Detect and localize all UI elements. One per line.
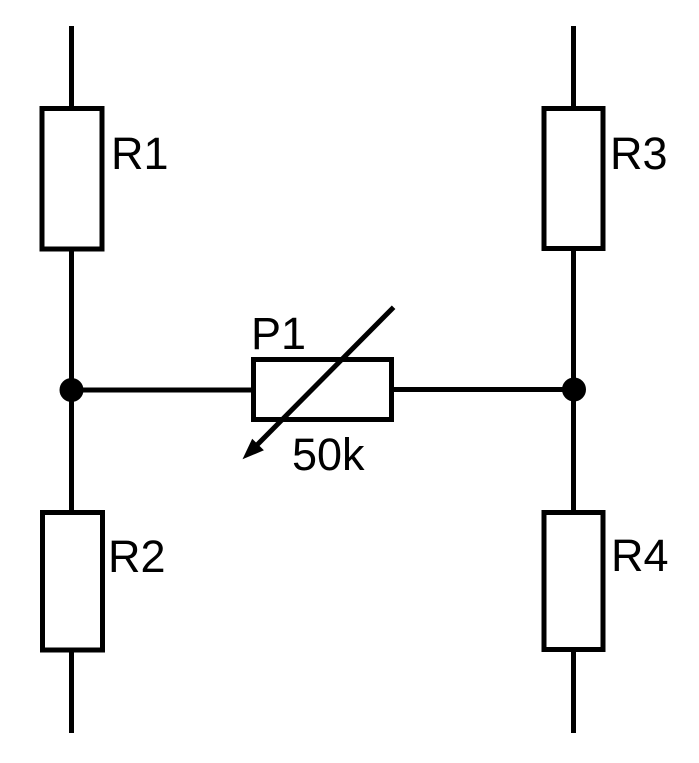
resistor R4 (544, 513, 603, 650)
svg-text:R3: R3 (610, 128, 668, 179)
svg-text:R1: R1 (111, 128, 169, 179)
wire bottom lead of R2 (69, 650, 74, 733)
wire P1 to node B (392, 387, 575, 392)
wire node A to R2 (69, 390, 74, 514)
svg-text:R2: R2 (108, 531, 166, 582)
resistor R1 (42, 109, 102, 250)
potentiometer arrowhead (243, 439, 264, 460)
wire R1 to node A (69, 249, 74, 390)
potentiometer P1 body (254, 360, 392, 420)
wire node B to R4 (571, 390, 576, 515)
wire top lead of R3 (571, 26, 576, 110)
resistor R3 (544, 109, 603, 249)
node B (right junction) (562, 378, 586, 402)
wire top lead of R1 (69, 26, 74, 110)
svg-text:R4: R4 (611, 530, 669, 581)
svg-text:50k: 50k (292, 429, 365, 480)
potentiometer arrow shaft (258, 307, 394, 444)
wire bottom lead of R4 (571, 650, 576, 734)
svg-text:P1: P1 (251, 308, 306, 359)
node A (left junction) (60, 378, 84, 402)
resistor R2 (43, 513, 103, 651)
wire node A to P1 (72, 388, 254, 393)
wire R3 to node B (571, 249, 576, 390)
